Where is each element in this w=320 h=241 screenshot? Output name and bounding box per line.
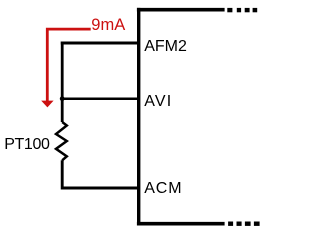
junction node dot (60, 96, 65, 101)
device outline bottom edge (137, 222, 225, 226)
wire left vertical branch upper segment (AFM2 corner down to node) (61, 42, 64, 123)
device outline top edge (137, 8, 225, 12)
label PT100 resistor value (4, 137, 49, 153)
device outline top edge continuation dots (227, 8, 257, 12)
resistor PT100 zigzag body (56, 122, 67, 160)
wire lower vertical segment from resistor to bottom corner (62, 160, 138, 188)
label 9mA (red current value) (91, 17, 125, 33)
label AFM2 terminal (144, 39, 187, 55)
red current path 9mA (horizontal then down) (47, 29, 90, 101)
wire from AFM2 terminal going left (61, 41, 139, 44)
device outline bottom edge continuation dots (228, 222, 260, 226)
label ACM terminal (144, 181, 182, 197)
red current arrowhead (41, 101, 53, 108)
wire from node to AVI terminal (62, 97, 138, 100)
device outline left edge (vertical border of module) (137, 8, 140, 226)
label AVI terminal (144, 94, 172, 110)
